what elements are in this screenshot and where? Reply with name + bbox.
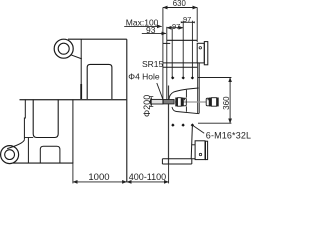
svg-text:93: 93 <box>146 25 156 35</box>
base step upper line <box>162 158 195 160</box>
svg-text:Φ4 Hole: Φ4 Hole <box>128 72 160 82</box>
upper eye bracket inner circle <box>58 43 69 54</box>
table line <box>20 99 127 101</box>
housing bottom <box>163 66 197 68</box>
lower arch <box>40 146 60 163</box>
dim 400-1100 right extension <box>168 164 170 183</box>
sprue funnel curve top <box>169 88 199 99</box>
barrel bottom <box>163 62 197 64</box>
base line <box>13 162 73 164</box>
svg-text:360: 360 <box>222 96 231 110</box>
svg-text:1000: 1000 <box>88 172 109 183</box>
dim 97 first line <box>167 27 183 29</box>
platen back pair line b <box>198 63 200 114</box>
upper bracket diagonal <box>71 55 82 59</box>
dim 400-1100 line <box>127 181 169 183</box>
body right edge <box>126 39 128 182</box>
svg-text:Φ200: Φ200 <box>142 95 152 117</box>
flare ledge <box>25 137 34 139</box>
lower bolt dot 1 <box>171 123 174 126</box>
platen face line <box>168 86 170 165</box>
upper bolt dot 3 <box>191 76 194 79</box>
base right edge <box>191 159 193 164</box>
extension line v5 with dot <box>191 21 193 78</box>
svg-text:SR15: SR15 <box>142 59 164 69</box>
upper column edge <box>80 39 82 99</box>
extension line v1 nozzle tip <box>162 8 164 101</box>
body top edge <box>68 38 127 40</box>
extension line v2 <box>166 27 168 101</box>
barrel end cap <box>204 42 208 65</box>
dim Phi200 ticks <box>149 97 153 107</box>
lower eye outer circle <box>1 146 19 164</box>
dim 1000 left extension <box>72 163 74 183</box>
nozzle shaft <box>151 99 163 104</box>
svg-text:630: 630 <box>173 0 187 8</box>
flange screw circle <box>199 47 201 49</box>
support bracket <box>195 141 205 160</box>
lower bolt dot 3 <box>191 123 194 126</box>
lower eye inner circle <box>5 150 15 160</box>
svg-text:97: 97 <box>172 22 180 31</box>
injection housing top <box>167 39 197 41</box>
support bracket tick <box>191 144 195 146</box>
U channel <box>33 100 58 138</box>
dim 1000 line <box>73 181 127 183</box>
platen back pair line a <box>197 63 199 114</box>
extension line v4 with dot <box>182 21 184 78</box>
base bottom line <box>162 163 191 165</box>
barrel top stub <box>163 42 170 44</box>
nozzle body gray <box>163 100 174 104</box>
upper bolt dot 2 <box>182 76 185 79</box>
barrel flange block <box>197 43 204 63</box>
clamp bolt right <box>206 98 219 107</box>
dim 360 top extension <box>198 77 232 79</box>
dim Phi200 line <box>150 97 152 106</box>
upper column edge thick part <box>80 84 82 100</box>
upper bolt dot 1 <box>171 76 174 79</box>
svg-text:400-1100: 400-1100 <box>129 172 166 182</box>
platen support edge <box>191 125 192 159</box>
dim 360 line <box>229 78 231 124</box>
dim 630 line <box>163 7 197 9</box>
clamp bolt left <box>175 98 186 107</box>
leader 6-M16 <box>193 125 205 133</box>
dim Max:100 line <box>124 25 162 27</box>
lower column right wall <box>72 100 74 163</box>
dim 97 second line <box>181 21 194 23</box>
bracket inner vertical <box>27 138 29 164</box>
svg-text:97: 97 <box>183 15 191 24</box>
extension line v3 with dot <box>171 28 173 78</box>
svg-text:6-M16*32L: 6-M16*32L <box>206 131 251 141</box>
extension line 630 right <box>196 8 198 43</box>
arch slot upper <box>87 64 112 99</box>
sprue funnel curve bottom <box>172 107 199 114</box>
base step vertical <box>161 159 163 164</box>
dim 360 bottom extension <box>198 122 231 124</box>
lower bolt dot 2 <box>181 123 184 126</box>
screw rod gray <box>174 101 206 103</box>
lower left flare to eye <box>7 140 24 149</box>
support bracket circle <box>199 153 201 155</box>
upper eye bracket outer circle <box>54 39 73 58</box>
support end cap <box>206 141 208 159</box>
locating ring edge stubs <box>185 90 187 112</box>
lower column outer left wall <box>23 100 26 140</box>
dim 93 line <box>142 32 166 34</box>
leader Phi4 hole <box>157 83 163 99</box>
